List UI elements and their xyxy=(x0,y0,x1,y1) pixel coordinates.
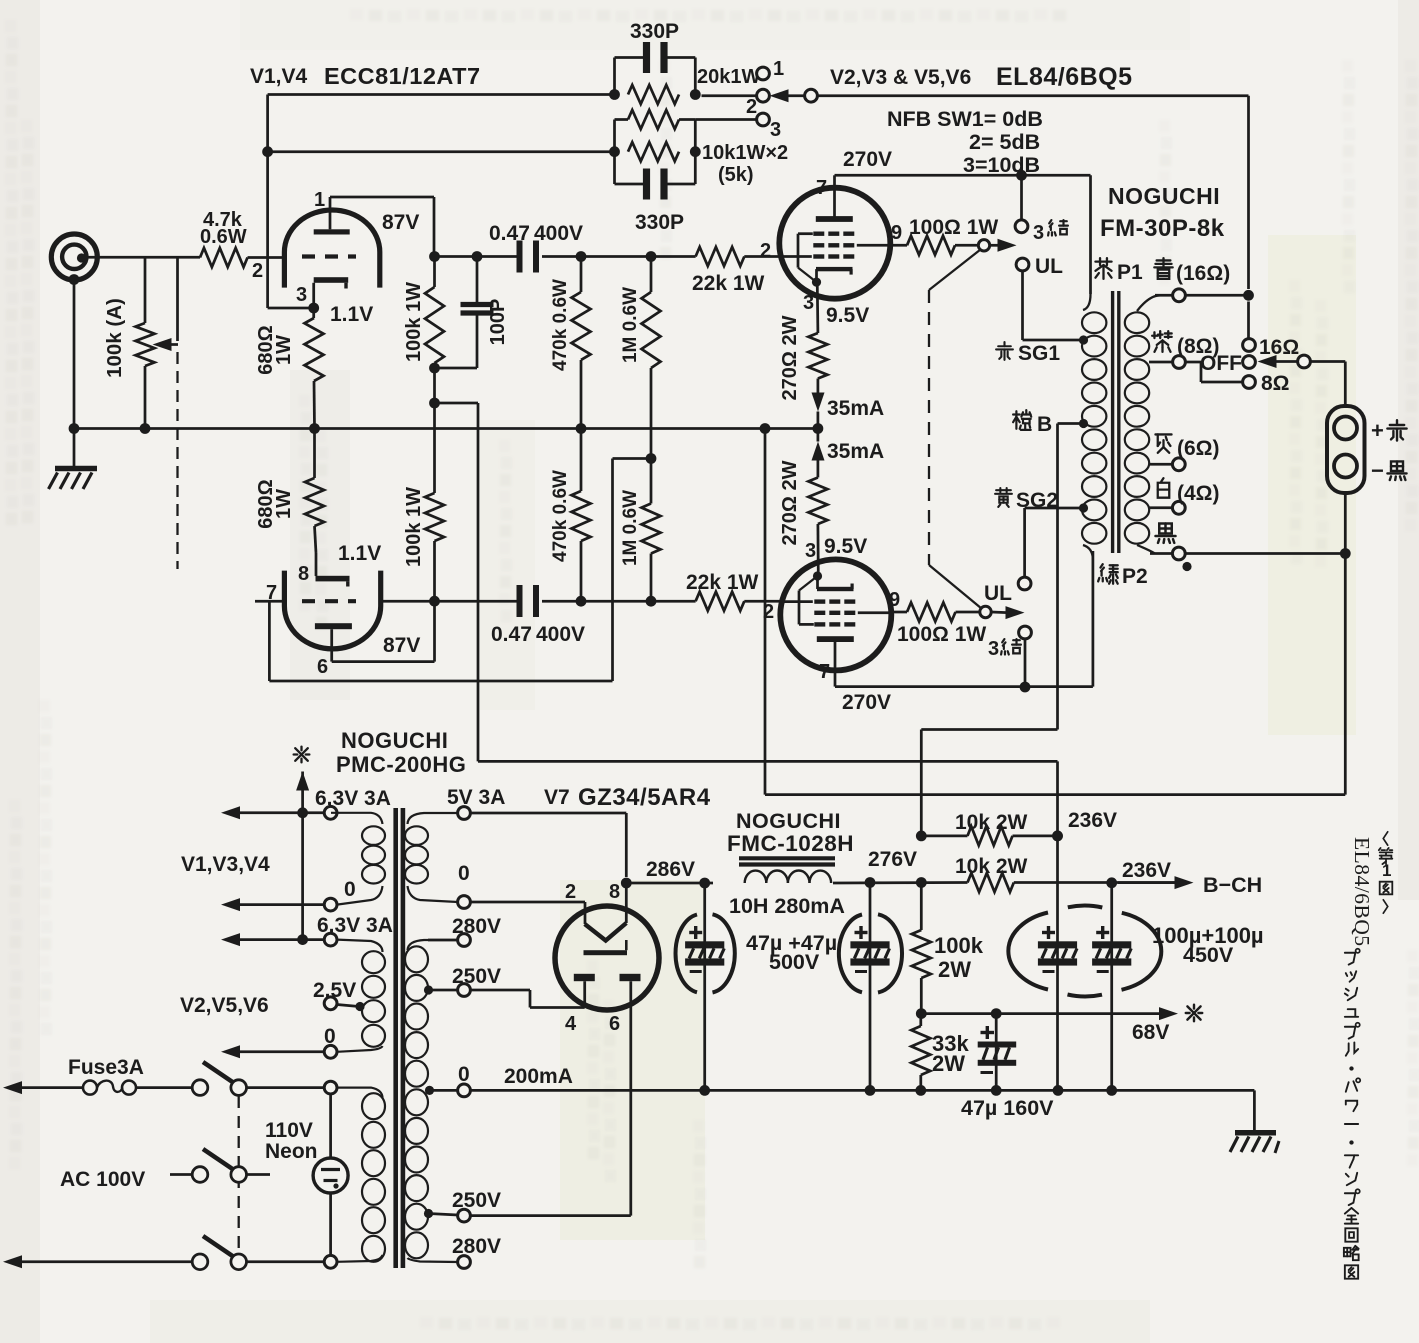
ground bus nodes xyxy=(699,1085,710,1096)
svg-text:400V: 400V xyxy=(534,222,583,245)
cathode resistor 270ohm 2W (upper) xyxy=(816,286,819,333)
OPT secondary lead 16ohm (ao) xyxy=(1137,295,1160,311)
switch S1a xyxy=(192,1080,208,1096)
svg-text:9.5V: 9.5V xyxy=(826,304,869,327)
node plate V1a xyxy=(429,251,440,262)
svg-text:22k 1W: 22k 1W xyxy=(686,571,759,594)
dashed switch gang xyxy=(238,1096,240,1252)
svg-text:EL84/6BQ5: EL84/6BQ5 xyxy=(996,63,1133,91)
svg-text:500V: 500V xyxy=(769,950,820,974)
wire common to jack xyxy=(1185,552,1345,555)
svg-text:V2,V3 & V5,V6: V2,V3 & V5,V6 xyxy=(830,66,971,89)
tap murasaki (8ohm) xyxy=(1149,361,1173,364)
ground bus xyxy=(74,427,818,430)
svg-text:6.3V 3A: 6.3V 3A xyxy=(315,787,391,810)
wire B+ riser input stage xyxy=(477,403,480,761)
dashed shield line xyxy=(176,352,178,569)
svg-text:200mA: 200mA xyxy=(504,1065,573,1088)
power transformer T1 core xyxy=(393,808,398,1268)
triode V1a envelope xyxy=(284,210,379,288)
wire 68V line xyxy=(916,1008,927,1019)
terminal 5V + wire to pin 8 xyxy=(458,807,471,820)
heater feed arrow 6.3V #1 xyxy=(221,806,240,819)
resistor 100k 2W xyxy=(916,877,927,888)
current arrow 35mA (up) xyxy=(817,429,820,442)
resistor 10k 1W (upper of x2) xyxy=(613,120,616,185)
arrow up to kome xyxy=(296,772,309,791)
wire B+ jog xyxy=(921,728,1057,731)
screen to pin 9 xyxy=(857,244,891,247)
input jack J1 xyxy=(51,234,97,280)
wire 286V line xyxy=(626,882,713,885)
svg-text:1.1V: 1.1V xyxy=(338,542,381,565)
NFB switch SW1 wiper arrow xyxy=(770,89,789,102)
V1a cathode xyxy=(314,277,349,283)
svg-text:SG2: SG2 xyxy=(1016,489,1058,512)
svg-text:ECC81/12AT7: ECC81/12AT7 xyxy=(324,63,481,89)
potentiometer 100k (A) xyxy=(144,257,147,323)
capacitor 47u #2 xyxy=(865,877,876,888)
ground bus (PSU) xyxy=(470,1089,1254,1092)
grid row screen xyxy=(814,611,825,615)
capacitor 47u #1 xyxy=(699,878,710,889)
wire grid entry xyxy=(248,256,287,259)
svg-text:2W: 2W xyxy=(932,1051,965,1076)
dashed gang link xyxy=(928,290,930,565)
contact UL (lower) xyxy=(1018,577,1031,590)
T1 heater winding 6.3V xyxy=(331,813,383,824)
heater return arrow (0) xyxy=(221,898,240,911)
svg-text:3: 3 xyxy=(770,119,781,141)
svg-text:280V: 280V xyxy=(452,1235,501,1258)
wire 236V riser xyxy=(1056,761,1059,882)
ground symbol (PSU) xyxy=(1253,1090,1256,1131)
svg-text:2: 2 xyxy=(760,240,771,262)
grid row g1 xyxy=(814,599,825,603)
HV taps xyxy=(424,985,433,994)
svg-text:8: 8 xyxy=(609,881,620,903)
wire 8ohm jog xyxy=(1185,361,1201,364)
svg-text:NOGUCHI: NOGUCHI xyxy=(341,728,448,753)
capacitor 0.47 400V (upper) xyxy=(517,241,523,273)
resistor 33k 2W xyxy=(919,1014,922,1026)
svg-text:Neon: Neon xyxy=(265,1140,318,1163)
mains line (top) with arrow xyxy=(3,1081,22,1094)
node cathode resistors junction xyxy=(813,423,824,434)
svg-text:47µ 160V: 47µ 160V xyxy=(961,1096,1054,1120)
mains line (bottom) with arrow + switch S1c xyxy=(3,1255,22,1268)
svg-text:100k: 100k xyxy=(934,933,984,958)
wire jack sleeve down xyxy=(69,274,80,285)
svg-text:0.47: 0.47 xyxy=(491,623,532,646)
node 100P tap xyxy=(429,363,440,374)
svg-text:3: 3 xyxy=(988,638,999,660)
kome mark #2 xyxy=(1186,1005,1203,1022)
NFB switch SW1 contact 1 xyxy=(757,67,770,80)
V1b grid dashed xyxy=(302,599,356,603)
svg-text:7: 7 xyxy=(816,177,827,199)
svg-text:AC 100V: AC 100V xyxy=(60,1168,145,1191)
svg-text:(16Ω): (16Ω) xyxy=(1176,262,1230,285)
svg-text:3: 3 xyxy=(803,292,814,314)
resistor 470k 0.6W (lower) xyxy=(580,429,583,492)
svg-text:B: B xyxy=(1037,413,1052,436)
caption <dai-1-zu> xyxy=(1383,832,1388,846)
capacitor 330P (top) xyxy=(613,58,616,95)
resistor 4.7k 0.6W xyxy=(200,248,248,267)
svg-text:330P: 330P xyxy=(635,211,684,234)
V1a plate and pin 1 xyxy=(314,229,350,234)
svg-text:+: + xyxy=(1371,418,1384,443)
svg-text:10k1W×2: 10k1W×2 xyxy=(702,142,788,164)
contact 3ketsu (lower) xyxy=(1019,626,1032,639)
OPT core xyxy=(1111,291,1114,553)
svg-text:87V: 87V xyxy=(383,634,420,657)
svg-text:V1,V3,V4: V1,V3,V4 xyxy=(181,853,270,876)
OPT secondary winding xyxy=(1125,312,1149,333)
tap kuro (common) xyxy=(1137,545,1155,554)
svg-text:1M 0.6W: 1M 0.6W xyxy=(620,287,641,363)
node 286V xyxy=(621,878,632,889)
svg-text:35mA: 35mA xyxy=(827,440,884,463)
svg-text:2= 5dB: 2= 5dB xyxy=(969,130,1040,154)
node cathode xyxy=(813,571,822,580)
svg-text:P1: P1 xyxy=(1117,261,1143,284)
cathode resistor 270ohm 2W (lower) xyxy=(817,452,820,478)
svg-text:0.47: 0.47 xyxy=(489,222,530,245)
svg-text:(6Ω): (6Ω) xyxy=(1177,437,1220,460)
node NFB line2 junction xyxy=(268,150,615,153)
V1b plate pin 6 xyxy=(315,623,352,629)
svg-text:100k 1W: 100k 1W xyxy=(403,282,425,362)
wire jack to grid line xyxy=(83,256,200,259)
svg-text:236V: 236V xyxy=(1122,859,1171,882)
node 236V xyxy=(1052,831,1063,842)
svg-text:6: 6 xyxy=(609,1013,620,1035)
svg-text:87V: 87V xyxy=(382,211,419,234)
resistor 22k 1W (lower) xyxy=(696,592,745,611)
svg-text:0.6W: 0.6W xyxy=(200,226,247,248)
svg-text:2: 2 xyxy=(565,881,576,903)
resistor 22k 1W (upper) xyxy=(696,247,745,266)
resistor 470k 0.6W (upper) xyxy=(576,251,587,262)
pentode V5,V6 envelope xyxy=(780,559,891,670)
svg-text:5V 3A: 5V 3A xyxy=(447,786,505,809)
svg-text:1: 1 xyxy=(773,58,784,80)
svg-text:7: 7 xyxy=(819,661,830,683)
capacitor 0.47 400V (lower) xyxy=(517,585,523,617)
svg-text:V2,V5,V6: V2,V5,V6 xyxy=(180,994,269,1017)
label aka SG1 xyxy=(996,342,1013,360)
svg-text:2: 2 xyxy=(252,260,263,282)
pot wiper arrow xyxy=(160,343,178,346)
svg-text:270Ω 2W: 270Ω 2W xyxy=(779,460,801,545)
output transformer T2 primary lead P1 xyxy=(1089,175,1092,294)
node V1a cathode junction xyxy=(308,303,319,314)
svg-text:EL84/6BQ5: EL84/6BQ5 xyxy=(1350,837,1374,947)
svg-text:3=10dB: 3=10dB xyxy=(963,153,1040,177)
grid row beam xyxy=(813,231,824,235)
node cathode xyxy=(812,278,821,287)
svg-text:UL: UL xyxy=(1035,255,1063,278)
beam plate hook to cathode xyxy=(799,623,814,626)
svg-text:4: 4 xyxy=(565,1013,577,1035)
svg-text:1.1V: 1.1V xyxy=(330,303,373,326)
UL switch wiper (lower) xyxy=(980,606,991,617)
svg-text:8: 8 xyxy=(298,563,309,585)
plate bar xyxy=(816,216,853,222)
svg-text:1W: 1W xyxy=(273,489,295,519)
svg-text:100k (A): 100k (A) xyxy=(103,298,126,378)
node lower plate line dots xyxy=(429,596,440,607)
rectifier V7 GZ34 envelope xyxy=(555,906,659,1010)
svg-text:250V: 250V xyxy=(452,1189,501,1212)
svg-text:1M 0.6W: 1M 0.6W xyxy=(620,490,641,566)
resistor 1M 0.6W (lower) xyxy=(650,459,653,504)
svg-text:PMC-200HG: PMC-200HG xyxy=(336,752,466,777)
GZ34 filament xyxy=(585,923,627,941)
wire ground return xyxy=(765,793,1345,796)
svg-text:NFB SW1= 0dB: NFB SW1= 0dB xyxy=(887,107,1043,131)
svg-text:470k 0.6W: 470k 0.6W xyxy=(550,470,571,562)
svg-text:(5k): (5k) xyxy=(718,164,754,186)
pentode V2,V3 envelope xyxy=(779,188,890,299)
svg-text:3: 3 xyxy=(1033,222,1044,244)
svg-text:10H 280mA: 10H 280mA xyxy=(729,894,845,918)
svg-text:P2: P2 xyxy=(1122,565,1148,588)
wire cathode NFB xyxy=(268,307,314,310)
node 3ketsu riser top xyxy=(1016,170,1027,181)
grid row beam xyxy=(814,622,825,626)
wire lower plate line xyxy=(435,600,517,603)
terminal primary top xyxy=(324,1081,337,1094)
resistor 100k 1W (V1a load) xyxy=(433,257,436,288)
label ki SG2 xyxy=(995,488,1012,507)
T1 primary winding xyxy=(337,1088,383,1098)
svg-text:2: 2 xyxy=(746,96,757,118)
triode V1b envelope xyxy=(284,571,380,649)
UL switch wiper (upper) xyxy=(978,240,989,251)
grid row screen xyxy=(813,243,824,247)
wire NFB feedback line xyxy=(817,94,1249,97)
svg-text:10k 2W: 10k 2W xyxy=(955,811,1028,834)
svg-text:3: 3 xyxy=(296,284,307,306)
contact 3ketsu (upper) xyxy=(1015,220,1028,233)
plate bar xyxy=(817,636,854,642)
GZ34 cathode bar xyxy=(584,950,628,955)
tap shiro (4ohm) xyxy=(1149,506,1173,509)
cathode xyxy=(817,587,854,591)
label midori P2 xyxy=(1098,564,1118,584)
svg-text:400V: 400V xyxy=(536,623,585,646)
svg-text:OFF: OFF xyxy=(1200,352,1242,375)
svg-text:100Ω 1W: 100Ω 1W xyxy=(909,216,998,239)
node 1M junction (phase inv grid) xyxy=(646,453,657,464)
V1a grid (dashed) xyxy=(302,254,356,258)
svg-text:0: 0 xyxy=(458,862,470,885)
resistor 20k 1W xyxy=(628,85,679,104)
GZ34 plates xyxy=(574,974,595,981)
svg-text:100Ω 1W: 100Ω 1W xyxy=(897,623,986,646)
svg-text:470k 0.6W: 470k 0.6W xyxy=(550,279,571,371)
T1 HV winding xyxy=(408,940,458,950)
svg-text:236V: 236V xyxy=(1068,809,1117,832)
svg-text:1: 1 xyxy=(314,189,325,211)
ground symbol (input) xyxy=(73,429,76,467)
svg-text:2W: 2W xyxy=(938,957,971,982)
svg-text:450V: 450V xyxy=(1183,943,1234,967)
svg-text:B−CH: B−CH xyxy=(1203,873,1262,897)
svg-text:110V: 110V xyxy=(265,1119,313,1142)
wire NFB top line xyxy=(268,93,615,96)
svg-text:276V: 276V xyxy=(868,848,917,871)
selector wiper arrow xyxy=(1258,355,1277,368)
screen to pin 9 xyxy=(858,611,892,614)
svg-text:SG1: SG1 xyxy=(1018,342,1060,365)
svg-text:9: 9 xyxy=(891,222,902,244)
resistor 680ohm 1W (V1a) xyxy=(312,308,315,318)
current arrow 35mA (down) xyxy=(812,393,825,412)
svg-text:0: 0 xyxy=(344,878,356,901)
svg-text:3: 3 xyxy=(805,540,816,562)
heater feed arrow 6.3V #2 xyxy=(221,933,240,946)
OPT taps SG1/B/SG2 xyxy=(1079,335,1088,344)
svg-text:1W: 1W xyxy=(273,335,295,365)
wire jack common down xyxy=(1344,493,1347,554)
speaker jack xyxy=(1327,406,1365,493)
wire 276V line xyxy=(833,881,968,884)
capacitor 330P (bottom) xyxy=(615,183,644,186)
svg-text:6.3V 3A: 6.3V 3A xyxy=(317,914,393,937)
svg-text:GZ34/5AR4: GZ34/5AR4 xyxy=(578,784,711,811)
kome mark (heater note) xyxy=(294,747,310,763)
svg-text:Fuse3A: Fuse3A xyxy=(68,1056,144,1079)
beam plate hook to cathode xyxy=(798,232,813,235)
resistor 1M 0.6W (upper) xyxy=(646,251,657,262)
V1b cathode pin 8 xyxy=(315,553,318,576)
capacitor 100P xyxy=(472,251,483,262)
svg-text:NOGUCHI: NOGUCHI xyxy=(1108,183,1220,209)
svg-text:(4Ω): (4Ω) xyxy=(1177,482,1220,505)
wire upper plate line xyxy=(435,255,517,258)
speaker selector contacts 16/OFF/8 xyxy=(1247,302,1250,339)
svg-text:FMC-1028H: FMC-1028H xyxy=(727,831,854,856)
NFB switch SW1 contact 3 xyxy=(695,118,757,121)
svg-text:68V: 68V xyxy=(1132,1021,1169,1044)
svg-text:100k 1W: 100k 1W xyxy=(403,487,425,567)
wire B+ from tap B xyxy=(1058,422,1084,425)
g1 to pin 2 xyxy=(780,600,813,603)
svg-text:1: 1 xyxy=(1382,861,1391,880)
T1 5V winding xyxy=(408,813,458,824)
svg-text:UL: UL xyxy=(984,582,1012,605)
OPT primary winding xyxy=(1082,312,1106,333)
capacitor 100u+100u 450V xyxy=(1056,883,1059,1091)
cathode xyxy=(816,267,853,271)
tap hai (6ohm) xyxy=(1149,463,1173,466)
svg-text:20k1W: 20k1W xyxy=(697,66,760,88)
svg-text:NOGUCHI: NOGUCHI xyxy=(736,809,841,833)
terminal primary bottom xyxy=(324,1255,337,1268)
resistor 10k 1W (lower of x2) xyxy=(628,142,679,161)
g1 to pin 2 xyxy=(779,255,812,258)
svg-text:100P: 100P xyxy=(487,299,509,346)
svg-text:35mA: 35mA xyxy=(827,397,884,420)
svg-text:V1,V4: V1,V4 xyxy=(250,65,308,88)
labels cha P1 / ao(16ohm) xyxy=(1095,258,1111,279)
svg-text:16Ω: 16Ω xyxy=(1259,336,1299,359)
phase dot xyxy=(1182,562,1191,571)
svg-text:270Ω 2W: 270Ω 2W xyxy=(779,315,801,400)
wire shield corner down xyxy=(176,257,179,341)
svg-text:22k 1W: 22k 1W xyxy=(692,272,765,295)
terminal 6.3V#1 xyxy=(324,806,337,819)
svg-text:V7: V7 xyxy=(544,786,570,809)
svg-text:8Ω: 8Ω xyxy=(1261,372,1290,395)
node lower 270V line xyxy=(1020,682,1031,693)
svg-text:9: 9 xyxy=(889,589,900,611)
svg-text:−: − xyxy=(1371,458,1384,483)
svg-text:10k 2W: 10k 2W xyxy=(955,855,1028,878)
resistor 100k 1W (V1b load) xyxy=(425,493,444,541)
contact UL (upper) xyxy=(1016,258,1029,271)
svg-text:9.5V: 9.5V xyxy=(824,535,867,558)
capacitor 47u 160V xyxy=(991,1008,1002,1019)
svg-text:270V: 270V xyxy=(843,148,892,171)
svg-text:6: 6 xyxy=(317,656,328,678)
T1 heater winding 6.3V (2) + 2.5V tap xyxy=(337,940,383,952)
svg-text:286V: 286V xyxy=(646,858,695,881)
node B+ feed input stage xyxy=(429,398,440,409)
NFB switch SW1 contact 2 xyxy=(702,94,757,97)
grid row g1 xyxy=(813,254,824,258)
svg-text:270V: 270V xyxy=(842,691,891,714)
resistor 680ohm 1W (V1b) xyxy=(313,429,316,479)
svg-text:FM-30P-8k: FM-30P-8k xyxy=(1100,215,1225,242)
svg-text:330P: 330P xyxy=(630,20,679,43)
